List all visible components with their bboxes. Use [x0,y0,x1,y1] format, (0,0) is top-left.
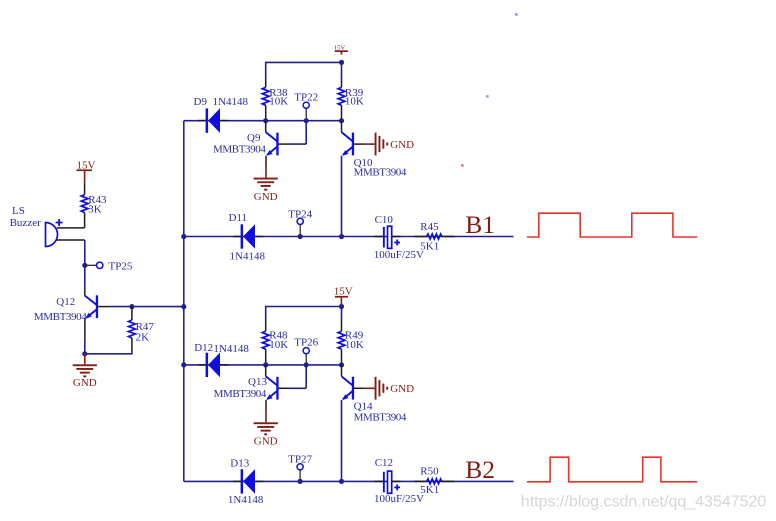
svg-text:MMBT3904: MMBT3904 [354,412,407,424]
wire buzzer bottom [56,240,85,287]
test point TP26 [294,337,318,365]
wire Q10 emitter [341,156,343,237]
svg-text:GND: GND [73,377,97,389]
node lower rail junction [339,304,344,309]
svg-text:D13: D13 [230,458,249,470]
waveform B2 [527,457,697,482]
svg-text:1N4148: 1N4148 [230,251,266,263]
svg-text:TP26: TP26 [294,337,318,349]
diode D11 [229,212,266,262]
stray dot 3 [461,164,463,166]
wire to GND Q12 [84,354,86,365]
node R39 row1 [339,118,344,123]
buzzer LS [10,205,63,247]
diode D13 [228,458,264,506]
svg-text:C10: C10 [375,214,394,226]
node Q12 base bus [181,304,186,309]
wire R47 bottom [85,338,132,354]
svg-text:10K: 10K [269,96,288,108]
svg-text:15V: 15V [334,286,353,298]
wire net row B2 [184,480,514,482]
svg-text:5K1: 5K1 [420,241,439,253]
ground GND Q12 [73,364,97,389]
test point TP27 [288,453,312,481]
svg-text:LS: LS [12,205,25,217]
power port 15V (left) [77,159,96,182]
svg-text:1N4148: 1N4148 [228,494,264,506]
svg-text:5K1: 5K1 [420,484,439,496]
wire Q10 base to GND [354,143,375,145]
ground GND Q10 (rotated) [375,133,414,156]
wire Q12 base [98,306,109,308]
power port 15V (top, tiny) [334,44,348,54]
svg-text:D12: D12 [194,342,213,354]
wire Q14 emitter [341,400,343,481]
svg-text:B1: B1 [465,210,495,239]
wire R38 top [265,62,267,88]
wire Q12 base row [109,306,184,308]
node bus row 2 [181,362,186,367]
wire left bus [183,121,185,482]
transistor Q12 [34,287,98,323]
stray dot 1 [515,13,517,15]
node Q14 emitter row B2 [339,479,344,484]
wire net row B1 [184,236,514,238]
resistor R48 [262,330,288,365]
svg-text:1N4148: 1N4148 [213,343,249,355]
wire Q13 emitter [265,400,267,422]
node TP27 row B2 [298,479,303,484]
svg-text:Buzzer: Buzzer [10,217,41,229]
resistor R50 [415,466,455,497]
svg-text:D11: D11 [229,212,248,224]
node TP26 row2 [304,362,309,367]
wire Q9 base [279,121,307,144]
test point TP25 [82,261,133,273]
net label B2 [465,455,495,484]
wire top rail [266,61,342,63]
waveform B1 [527,213,697,237]
svg-text:10K: 10K [345,96,364,108]
node R47 top [129,304,134,309]
svg-text:D9: D9 [194,96,208,108]
watermark [521,493,767,510]
svg-text:GND: GND [390,139,414,151]
test point TP24 [288,209,312,237]
node TP22 row1 [304,118,309,123]
svg-text:15V: 15V [334,44,346,51]
wire R49 top [341,307,343,332]
svg-text:TP25: TP25 [109,261,133,273]
svg-text:3K: 3K [88,203,102,215]
test point TP22 [294,91,318,120]
wire R43 to buzzer [57,213,85,228]
svg-text:10K: 10K [345,339,364,351]
wire Q9 emitter [265,156,267,178]
resistor R43 [81,194,107,216]
svg-text:Q9: Q9 [247,132,261,144]
capacitor C10 [374,214,424,261]
wire Q12 emitter [84,319,86,354]
svg-text:GND: GND [254,435,278,447]
node TP24 row B1 [298,234,303,239]
wire 15V to R43 [84,182,86,194]
svg-text:B2: B2 [465,455,495,484]
svg-text:MMBT3904: MMBT3904 [213,143,266,155]
svg-text:10K: 10K [269,339,288,351]
resistor R45 [415,221,455,253]
ground GND Q13 [254,422,278,447]
svg-text:Q13: Q13 [248,376,267,388]
wire R39 top [341,62,343,87]
resistor R47 [129,307,155,344]
svg-text:R45: R45 [420,221,439,233]
wire Q14 base to GND [354,387,375,389]
wire lower rail [266,306,342,308]
power port 15V (lower) [334,286,353,307]
transistor Q9 [213,121,279,156]
svg-text:100uF/25V: 100uF/25V [374,249,424,261]
transistor Q10 [342,121,407,179]
diode D9 [194,96,249,133]
stray dot 2 [486,95,488,97]
svg-text:1N4148: 1N4148 [213,96,249,108]
svg-text:C12: C12 [375,457,393,469]
wire net row 1 [184,120,342,122]
node Q10 emitter row B1 [339,234,344,239]
svg-text:MMBT3904: MMBT3904 [34,311,87,323]
svg-text:GND: GND [254,191,278,203]
node Q12 emitter junction [82,351,87,356]
resistor R39 [338,87,364,121]
svg-text:GND: GND [390,383,414,395]
ground GND Q9 [254,178,278,203]
resistor R38 [262,87,288,121]
node R49 row2 [339,362,344,367]
node R48 row2 [263,362,268,367]
wire net row 2 [184,364,342,366]
svg-text:2K: 2K [136,331,150,343]
net label B1 [465,210,495,239]
node R38 row1 [263,118,268,123]
diode D12 [194,342,249,377]
resistor R49 [338,330,364,365]
node top rail junction [339,60,344,65]
wire R48 top [265,306,267,332]
transistor Q14 [342,365,407,424]
wire Q13 base [279,365,307,388]
svg-text:Q12: Q12 [56,296,75,308]
svg-text:MMBT3904: MMBT3904 [214,388,267,400]
node bus row B1 [181,234,186,239]
svg-text:100uF/25V: 100uF/25V [374,493,424,505]
capacitor C12 [374,457,424,505]
transistor Q13 [214,365,279,400]
ground GND Q14 (rotated) [375,377,414,400]
svg-text:R50: R50 [420,466,439,478]
svg-text:MMBT3904: MMBT3904 [354,167,407,179]
svg-text:https://blog.csdn.net/qq_43547: https://blog.csdn.net/qq_43547520 [521,493,767,510]
